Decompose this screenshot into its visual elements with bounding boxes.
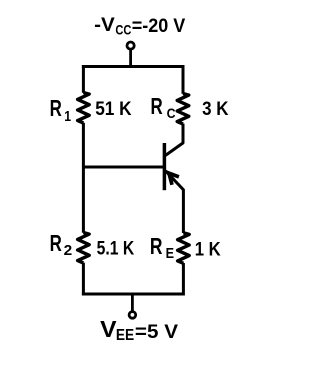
svg-text:3 K: 3 K <box>202 98 228 120</box>
svg-text:E: E <box>166 245 174 262</box>
svg-text:CC: CC <box>115 22 131 37</box>
svg-text:1: 1 <box>64 109 71 125</box>
svg-text:C: C <box>167 106 176 121</box>
svg-text:=-20 V: =-20 V <box>132 16 186 37</box>
svg-text:V: V <box>100 316 117 342</box>
svg-text:R: R <box>50 95 62 121</box>
svg-text:51 K: 51 K <box>95 98 131 120</box>
svg-text:R: R <box>150 233 163 259</box>
svg-text:-V: -V <box>94 14 115 36</box>
svg-text:1 K: 1 K <box>195 239 221 261</box>
svg-text:R: R <box>151 93 163 119</box>
svg-text:2: 2 <box>64 243 73 259</box>
svg-text:R: R <box>50 230 62 256</box>
svg-text:EE: EE <box>116 327 135 344</box>
svg-text:=5 V: =5 V <box>135 321 178 343</box>
svg-text:5.1 K: 5.1 K <box>97 238 135 260</box>
